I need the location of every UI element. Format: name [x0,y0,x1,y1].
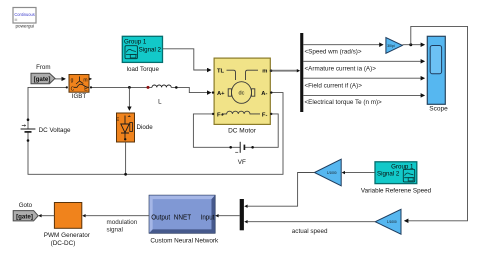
svg-text:Signal 2: Signal 2 [139,46,162,53]
svg-text:Goto: Goto [19,202,33,209]
svg-text:1/1000: 1/1000 [387,220,397,224]
IGBT E port dot [90,86,92,88]
svg-text:Scope: Scope [429,105,448,112]
wire Diode to bottom bus [125,142,127,174]
svg-text:NNET: NNET [174,213,192,222]
svg-text:actual speed: actual speed [292,228,328,235]
svg-text:VF: VF [238,159,246,166]
svg-text:modulation: modulation [107,219,138,226]
svg-text:m: m [262,68,267,74]
IGBT C port dot [66,86,68,88]
svg-text:30/pi: 30/pi [387,44,395,48]
svg-text:dc: dc [239,91,245,97]
svg-text:m: m [83,78,87,84]
svg-text:1/1000: 1/1000 [327,171,337,175]
wire gain to Scope [402,44,424,46]
node junction diode [128,86,131,89]
svg-text:Custom Neural Network: Custom Neural Network [150,238,219,245]
svg-text:F-: F- [262,112,268,118]
wire load Torque to TL [163,49,211,70]
wire F+ F- loop [193,114,278,147]
gain 1/1000 actual speed [375,209,401,234]
wire Speed to gain [303,44,383,46]
IGBT block [69,75,89,93]
svg-text:[gate]: [gate] [34,76,51,83]
svg-text:L: L [158,99,162,106]
svg-text:Diode: Diode [137,124,154,131]
wire Electrical torque to Scope [303,94,424,96]
svg-text:<Armature current ia (A)>: <Armature current ia (A)> [305,65,377,72]
wire NNET to PWM [86,215,150,217]
inductor right terminal dot [175,86,178,89]
load Torque signal builder block [122,36,162,62]
svg-text:Input: Input [201,213,215,222]
wire speed feedback right side [405,26,468,220]
wire actual speed to mux [248,221,376,223]
wire mux to NNET [219,215,240,217]
wire Field current to Scope [303,77,424,79]
Variable Reference Speed block [375,162,417,184]
node speed junction [409,43,412,46]
Goto tag [gate] [13,211,38,221]
DC Motor block [214,58,270,124]
wire VRS to gain [345,172,375,174]
gain 1/1000 reference [314,159,341,186]
svg-text:[gate]: [gate] [16,213,33,220]
Diode block [115,113,135,142]
inductor L coil [152,85,171,87]
svg-text:powergui: powergui [15,24,34,29]
VF source [229,142,254,153]
svg-text:Variable Referene Speed: Variable Referene Speed [361,187,432,194]
svg-text:A-: A- [261,91,267,97]
svg-text:DC Voltage: DC Voltage [39,127,71,134]
wire From to IGBT g [55,78,65,80]
svg-text:Signal 2: Signal 2 [377,170,400,177]
bus selector [300,33,303,112]
svg-text:signal: signal [107,226,123,233]
powergui block [13,8,36,24]
svg-text:<Electrical torque Te (n m)>: <Electrical torque Te (n m)> [305,99,383,106]
svg-text:From: From [36,64,50,71]
node diode-bus junction [124,173,127,176]
svg-text:F+: F+ [217,112,225,118]
mux [240,199,244,230]
wire junction to Diode [128,87,130,110]
wire PWM to Goto [42,215,55,217]
From tag [gate] [31,73,55,84]
svg-text:A+: A+ [217,91,225,97]
svg-text:Continuous: Continuous [14,12,35,17]
svg-text:load Torque: load Torque [127,66,160,73]
wire IGBT E to inductor and A+ [91,87,211,92]
svg-text:Output: Output [151,213,170,222]
svg-text:(DC-DC): (DC-DC) [51,240,76,247]
svg-text:m: m [115,117,120,121]
svg-text:IGBT: IGBT [72,93,87,100]
PWM Generator block [54,203,81,229]
svg-text:DC Motor: DC Motor [228,128,257,135]
svg-text:Group 1: Group 1 [124,38,147,45]
inductor left terminal red dot [147,86,150,89]
motor port dots [212,91,214,93]
wire m bus to Bus Selector [270,70,297,72]
gain 30/pi [386,38,403,54]
svg-text:PWM Generator: PWM Generator [44,232,91,239]
svg-text:<Field current if (A)>: <Field current if (A)> [305,82,363,89]
Custom Neural Network block [149,195,215,233]
svg-text:<Speed wm (rad/s)>: <Speed wm (rad/s)> [305,49,362,56]
svg-text:g: g [71,78,74,84]
svg-text:TL: TL [217,68,225,74]
Scope block [427,36,445,104]
DC Voltage source [21,118,36,141]
wire Armature current to Scope [303,60,424,62]
IGBT m port arrow [89,78,92,81]
wire left vertical and bottom bus [28,87,283,174]
wire reference to mux [248,173,315,207]
